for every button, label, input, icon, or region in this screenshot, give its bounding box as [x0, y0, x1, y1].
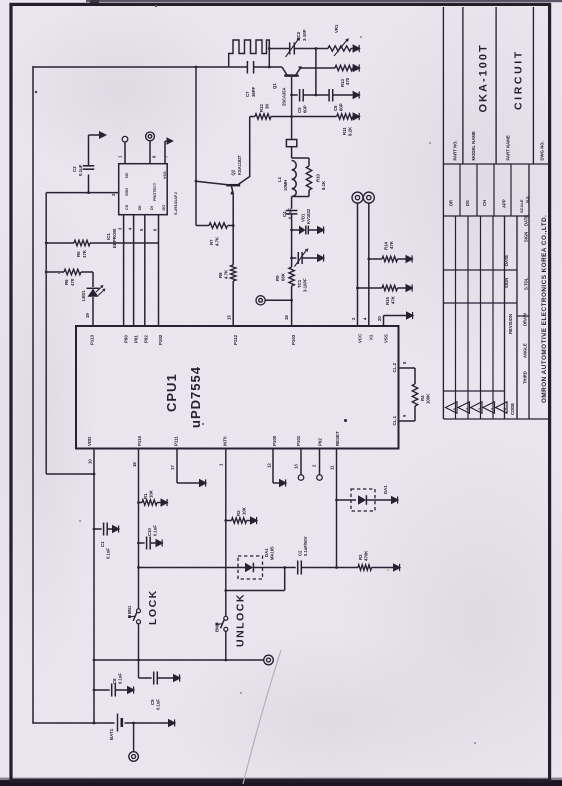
wire R15 row: [358, 287, 383, 289]
svg-text:13: 13: [294, 464, 299, 469]
svg-text:R4: R4: [420, 395, 425, 401]
svg-text:R6: R6: [64, 279, 69, 285]
svg-text:17: 17: [170, 465, 175, 470]
wire P111 stub to ground: [176, 449, 178, 484]
title block company row line: [528, 164, 530, 419]
svg-text:470: 470: [70, 278, 75, 286]
svg-text:P91: P91: [134, 335, 139, 343]
wire IC1 pin 5 to CPU P92: [144, 215, 146, 326]
svg-text:IC1: IC1: [106, 233, 111, 240]
svg-text:16: 16: [132, 462, 137, 467]
svg-text:47K: 47K: [391, 295, 396, 304]
svg-text:1: 1: [503, 408, 507, 410]
svg-text:UNLOCK: UNLOCK: [235, 593, 247, 647]
wire R15 to ground: [398, 287, 406, 289]
svg-text:470K: 470K: [364, 550, 369, 561]
svg-text:KSA1182T: KSA1182T: [237, 154, 242, 175]
svg-text:MODEL NAME: MODEL NAME: [471, 131, 476, 160]
terminal above IC1 pin 8: [146, 132, 155, 141]
capacitor C9 branch: [139, 677, 152, 679]
svg-text:DWG NO.: DWG NO.: [540, 141, 545, 160]
svg-text:VR1: VR1: [334, 24, 339, 33]
svg-text:0.1uF: 0.1uF: [118, 673, 123, 684]
svg-text:36PF: 36PF: [251, 86, 256, 97]
variable resistor VR1: [328, 46, 351, 51]
wire R6 corner to LED1: [81, 271, 93, 273]
svg-text:VDD: VDD: [87, 437, 92, 446]
wire C7 row: [229, 66, 248, 68]
terminal J1: [256, 296, 265, 305]
wire VDD top rail: [33, 66, 229, 68]
wire battery rail bottom: [32, 722, 114, 724]
terminal J4: [129, 752, 139, 762]
power arrow above C3: [99, 131, 107, 139]
svg-text:PART NAME: PART NAME: [506, 135, 511, 160]
battery BAT1: [117, 714, 119, 732]
svg-text:10MH: 10MH: [283, 180, 288, 191]
switch BN1: [137, 609, 141, 613]
svg-text:0.1uF: 0.1uF: [153, 525, 158, 536]
svg-text:R14: R14: [384, 242, 389, 250]
svg-text:VSS: VSS: [163, 171, 167, 179]
inductor L1: [292, 157, 309, 159]
ground arrow VR1: [351, 48, 353, 50]
svg-text:R7: R7: [209, 239, 214, 245]
wire Q1 base vertical: [291, 77, 293, 140]
resistor R10 parallel: [308, 158, 310, 166]
svg-text:THIRD: THIRD: [523, 371, 528, 384]
capacitor C5: [299, 89, 301, 102]
wire P110 to BN1: [138, 449, 140, 609]
svg-text:PART NO.: PART NO.: [453, 140, 458, 160]
svg-text:R9: R9: [275, 275, 280, 281]
svg-text:S-29131AFJ: S-29131AFJ: [173, 192, 178, 215]
svg-text:P112: P112: [233, 334, 238, 345]
svg-text:10: 10: [88, 459, 93, 464]
ground arrow battery rail: [168, 719, 176, 728]
ground arrow R13: [353, 64, 361, 73]
svg-text:DATE: DATE: [524, 215, 529, 226]
svg-text:BN2: BN2: [215, 623, 220, 632]
resistor R11: [337, 114, 353, 119]
ground arrow C9: [173, 674, 181, 683]
svg-text:TC1: TC1: [297, 279, 302, 288]
capacitor C6: [328, 89, 330, 102]
wire R9 to CPU P103: [291, 286, 293, 326]
ground arrow R2: [250, 516, 258, 525]
ground arrow C6: [353, 91, 361, 100]
svg-text:CH: CH: [482, 200, 487, 206]
capacitor C1 branch: [94, 528, 102, 530]
wire R6 row: [46, 271, 64, 273]
transistor Q2 KSA1182T: [226, 184, 240, 187]
svg-text:P110: P110: [137, 435, 142, 446]
svg-text:60P: 60P: [303, 105, 308, 113]
svg-text:3-10PF: 3-10PF: [303, 278, 308, 292]
svg-text:47K: 47K: [82, 249, 87, 258]
svg-text:BAT1: BAT1: [109, 728, 114, 740]
svg-text:SCALE: SCALE: [519, 199, 524, 213]
svg-text:C6: C6: [333, 105, 338, 111]
wire VSS stub to ground: [383, 316, 385, 327]
title block stol divider: [517, 315, 529, 317]
svg-text:P101: P101: [296, 435, 301, 446]
wire R14 to ground: [398, 258, 406, 260]
wire VR1 row: [316, 48, 328, 50]
wire R5 to P102 net: [90, 242, 159, 244]
IC1 pin 7 stub and power arrow: [164, 141, 166, 164]
svg-text:CL.1: CL.1: [392, 415, 397, 425]
resistor R5: [74, 240, 90, 245]
ground arrow VD1: [317, 226, 325, 235]
ground arrow TC1: [317, 254, 325, 263]
scan edge bottom strip: [0, 780, 562, 786]
wire P100 stub to ground: [272, 449, 274, 484]
svg-text:SIGN: SIGN: [504, 278, 509, 288]
capacitor C10 branch: [139, 542, 145, 544]
resistor R12: [255, 114, 271, 119]
svg-text:0.1uF: 0.1uF: [106, 548, 111, 559]
diode DA1 reset branch: [337, 499, 357, 501]
wire crystal to L1: [291, 147, 293, 158]
wire TC2 junction vertical: [315, 49, 317, 96]
svg-text:PROTECT: PROTECT: [153, 182, 157, 201]
wire RESET vertical: [336, 449, 338, 568]
svg-text:P113: P113: [90, 334, 95, 345]
title block row model name: [495, 7, 497, 164]
terminal J5: [264, 655, 274, 665]
wire C5 to C6: [303, 94, 329, 96]
wire C3 stub: [88, 175, 90, 193]
ground arrow R11: [353, 112, 361, 121]
svg-text:L1: L1: [277, 176, 282, 182]
switch BN2: [224, 616, 228, 620]
svg-text:8.2K: 8.2K: [348, 126, 353, 136]
svg-text:0.1uF/50V: 0.1uF/50V: [303, 536, 308, 556]
LED LED1: [87, 287, 100, 289]
svg-text:P103: P103: [291, 334, 296, 345]
wire reset RC row: [139, 567, 237, 569]
svg-text:C5: C5: [297, 107, 302, 113]
IC IC1 EEPROM body: [119, 164, 168, 215]
svg-text:P100: P100: [272, 435, 277, 446]
svg-text:ANGLE: ANGLE: [523, 343, 528, 358]
antenna coil meander: [229, 40, 270, 67]
svg-text:C9: C9: [150, 699, 155, 705]
wire BN1 to C9 node: [138, 624, 140, 678]
wire LED1 to CPU pin 19: [92, 297, 94, 326]
resistor R13: [335, 65, 353, 70]
wire CL2 stub: [399, 367, 416, 369]
wire IC1 pin 4 to CPU P91: [133, 215, 135, 326]
wire TC1 row: [292, 257, 297, 259]
svg-text:R8: R8: [218, 272, 223, 278]
wire J3 to CPU X1: [368, 203, 370, 326]
svg-text:INT0: INT0: [223, 436, 228, 446]
svg-text:P102: P102: [158, 334, 163, 345]
svg-text:CL.2: CL.2: [392, 362, 397, 372]
ground arrow P111: [199, 479, 207, 488]
revision triangle 4: [458, 402, 470, 413]
svg-text:DR: DR: [449, 200, 454, 206]
svg-text:VSS: VSS: [384, 334, 389, 343]
svg-text:R15: R15: [385, 297, 390, 305]
revision triangle 2: [483, 402, 495, 413]
svg-text:R2: R2: [236, 510, 241, 516]
ground arrow R1: [161, 498, 169, 507]
svg-text:4.7K: 4.7K: [224, 269, 229, 279]
wire C3 to VDD arrow: [88, 135, 90, 166]
svg-text:LED1: LED1: [81, 290, 86, 301]
svg-text:68K: 68K: [281, 272, 286, 281]
svg-text:CODE: CODE: [510, 403, 515, 415]
ground arrow C8: [127, 686, 135, 695]
svg-text:10K: 10K: [242, 506, 247, 515]
wire R5 row: [46, 242, 74, 244]
capacitor C3: [83, 165, 95, 167]
terminal J3: [363, 192, 374, 203]
svg-text:TC2: TC2: [296, 31, 301, 40]
resistor R8: [231, 265, 236, 281]
svg-text:R10: R10: [316, 174, 321, 182]
resistor R7: [209, 223, 228, 228]
wire IC1 VDD line: [46, 192, 119, 194]
trimmer capacitor TC1: [297, 252, 299, 264]
svg-text:DI: DI: [150, 206, 154, 210]
wire IC1 pin 6 to CPU P102: [158, 215, 160, 326]
svg-text:12: 12: [267, 463, 272, 468]
svg-text:4: 4: [466, 408, 470, 410]
svg-text:100K: 100K: [426, 393, 431, 404]
wire C4 to VD1 row: [291, 214, 293, 258]
svg-text:47K: 47K: [389, 240, 394, 249]
svg-text:CPU1: CPU1: [164, 373, 179, 412]
wire R7 row: [196, 225, 209, 227]
svg-text:DO: DO: [162, 205, 166, 211]
wire Q1 emitter row to R13: [301, 67, 335, 69]
wire Q2 collector vertical: [249, 117, 251, 178]
svg-text:OMRON AUTOMOTIVE ELECTRONICS K: OMRON AUTOMOTIVE ELECTRONICS KOREA CO.,L…: [541, 215, 548, 403]
svg-text:8.1K: 8.1K: [321, 180, 326, 190]
title block row part name: [532, 7, 534, 164]
wire VDD vertical to CPU pin 10: [93, 449, 95, 724]
svg-text:CS: CS: [125, 204, 129, 210]
svg-text:20: 20: [377, 316, 382, 321]
svg-text:19: 19: [85, 313, 90, 318]
wire R12 to R11: [271, 116, 337, 118]
wire TC2 row: [269, 48, 289, 50]
capacitor C8 branch: [94, 689, 110, 691]
resistor R14: [382, 256, 398, 261]
svg-text:11: 11: [330, 465, 335, 470]
ground arrow C1: [112, 525, 120, 534]
svg-text:2: 2: [491, 408, 495, 410]
svg-text:VD1: VD1: [301, 213, 306, 222]
ground arrow VSS: [406, 311, 414, 320]
wire C6 to ground: [333, 94, 353, 96]
svg-text:R3: R3: [358, 554, 363, 560]
svg-text:C2: C2: [298, 550, 303, 556]
svg-text:uPD7554: uPD7554: [188, 366, 203, 428]
svg-text:NC: NC: [125, 172, 129, 178]
title block code column: [443, 390, 504, 392]
svg-text:EEPROM: EEPROM: [112, 229, 117, 248]
svg-text:OKA-100T: OKA-100T: [478, 43, 490, 112]
CPU U1 uPD7554 body: [76, 326, 399, 449]
resistor R2 branch: [226, 520, 232, 522]
svg-text:3-10P: 3-10P: [302, 29, 307, 41]
wire R8 to CPU P112: [232, 281, 234, 326]
wire DA1 cathode jog to INT0: [284, 568, 286, 591]
svg-text:2SCA35A: 2SCA35A: [282, 88, 287, 106]
svg-text:C3: C3: [72, 166, 77, 172]
svg-text:APP: APP: [502, 199, 507, 208]
resistor R6: [64, 269, 81, 274]
svg-text:3: 3: [478, 408, 482, 410]
title block divider C: [443, 163, 548, 165]
svg-text:R12: R12: [259, 104, 264, 112]
wire P02 stub: [319, 449, 321, 475]
svg-text:3K: 3K: [265, 103, 270, 109]
svg-text:R5: R5: [76, 251, 81, 257]
capacitor C7: [246, 61, 248, 74]
svg-text:0.1uF: 0.1uF: [156, 699, 161, 710]
ground arrow R15: [406, 284, 414, 293]
title block row part no: [462, 7, 464, 164]
svg-text:15: 15: [227, 315, 232, 320]
crystal X1 body: [286, 140, 296, 147]
wire branch VDD to R5/R6 column: [45, 193, 47, 474]
wire R7 to emitter net: [228, 225, 234, 227]
wire BN2 to common rail: [225, 631, 227, 660]
dust specks: [344, 419, 347, 422]
terminal J2: [352, 192, 363, 203]
svg-text:C7: C7: [245, 91, 250, 97]
capacitor C4: [286, 210, 298, 212]
title block revision column: [443, 302, 517, 304]
svg-text:18: 18: [284, 315, 289, 320]
title block fine revision rows: [455, 216, 457, 419]
capacitor C2: [297, 561, 299, 575]
title block divider B: [443, 215, 529, 217]
svg-text:P02: P02: [318, 438, 323, 446]
svg-text:BN1: BN1: [127, 605, 132, 614]
svg-text:P111: P111: [174, 436, 179, 446]
revision triangle 1: [496, 402, 508, 413]
wire feed line x196: [195, 67, 197, 226]
transistor Q1 2SCA35A: [284, 74, 298, 77]
svg-text:R11: R11: [342, 127, 347, 135]
resistor R9: [291, 258, 293, 267]
wire CL1 stub: [414, 406, 416, 421]
wire Q2 emitter vertical to R8: [232, 194, 234, 266]
revision triangle 3: [471, 402, 483, 413]
svg-text:5: 5: [453, 408, 457, 410]
wire R14 row: [369, 258, 382, 260]
scan wrinkle curve: [243, 650, 281, 784]
svg-text:C1: C1: [100, 541, 105, 547]
wire left bus: [32, 66, 34, 724]
svg-text:N.S: N.S: [525, 196, 530, 203]
svg-text:CIRCUIT: CIRCUIT: [513, 49, 525, 110]
svg-text:DA1: DA1: [383, 485, 388, 494]
wire L1 to C4: [291, 197, 293, 209]
wire tank junction vertical: [268, 40, 270, 67]
svg-text:4.7K: 4.7K: [215, 236, 220, 246]
svg-text:LOCK: LOCK: [147, 589, 159, 625]
svg-text:60P: 60P: [339, 103, 344, 111]
svg-text:DRAW: DRAW: [523, 313, 528, 326]
revision triangle 5: [446, 402, 458, 413]
svg-text:Q2: Q2: [231, 169, 236, 175]
title block section B rows: [459, 164, 461, 216]
ground arrow C10: [156, 539, 164, 548]
trimmer capacitor TC2: [289, 43, 291, 55]
wire terminal row oscillator: [265, 299, 291, 301]
svg-text:RESET: RESET: [335, 431, 340, 446]
diode DA1 MA165: [238, 556, 263, 579]
svg-text:C8: C8: [112, 678, 117, 684]
resistor R4: [412, 384, 417, 406]
svg-text:P90: P90: [124, 335, 129, 343]
svg-text:VDD: VDD: [125, 188, 129, 196]
wire stub to terminal J4: [133, 723, 135, 752]
ground arrow R3: [393, 563, 401, 572]
resistor R3: [337, 567, 359, 569]
svg-text:SK: SK: [138, 205, 142, 211]
svg-text:S.TOL: S.TOL: [524, 277, 529, 290]
svg-text:Q1: Q1: [272, 83, 277, 89]
resistor R1 branch: [139, 502, 143, 504]
svg-text:KV1832: KV1832: [306, 208, 311, 224]
wire J2 to CPU VCC: [357, 203, 359, 326]
svg-text:R1: R1: [143, 493, 148, 499]
title block sign date divider: [443, 269, 517, 271]
IC1 pin 1 stub and test point: [124, 142, 126, 164]
wire INT0 to BN2: [225, 449, 227, 617]
svg-text:C10: C10: [147, 528, 152, 536]
svg-text:0.1uF: 0.1uF: [78, 164, 83, 176]
ground arrow P100: [279, 479, 287, 488]
ground arrow DA1 reset: [391, 496, 399, 505]
svg-text:MA165: MA165: [270, 546, 275, 560]
svg-text:470: 470: [345, 77, 350, 85]
wire C5 row: [292, 94, 298, 96]
svg-text:DS: DS: [465, 200, 470, 206]
svg-text:VCC: VCC: [358, 333, 363, 343]
svg-text:DA1: DA1: [264, 548, 269, 557]
wire key common rail: [94, 659, 264, 661]
ground arrow R14: [406, 255, 414, 264]
IC1 pin 8 stub and terminal: [149, 141, 151, 164]
scan edge top: [86, 0, 562, 2]
svg-text:10K: 10K: [149, 489, 154, 498]
svg-text:X1: X1: [369, 334, 374, 340]
title block outline: [442, 7, 444, 419]
svg-text:DATE: DATE: [504, 255, 509, 266]
wire R12 R11 row: [250, 116, 255, 118]
svg-text:C4: C4: [282, 211, 287, 217]
svg-text:SIGN: SIGN: [524, 232, 529, 242]
wire IC1 pin 3 to CPU P90: [123, 215, 125, 326]
varactor diode VD1: [292, 229, 299, 231]
svg-text:REVISION: REVISION: [508, 314, 513, 334]
svg-text:P92: P92: [144, 335, 149, 343]
resistor R15: [382, 285, 398, 290]
wire P101 stub: [300, 449, 302, 475]
